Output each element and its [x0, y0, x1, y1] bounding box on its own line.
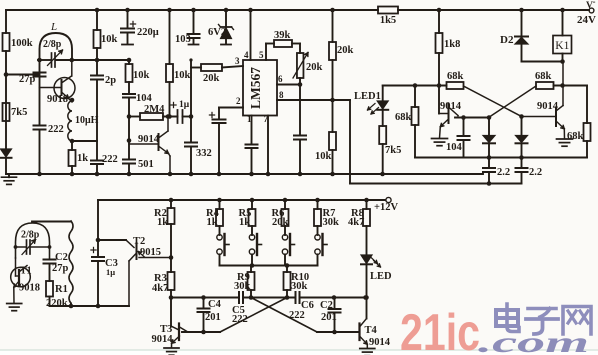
svg-text:T2: T2 — [133, 236, 145, 247]
svg-text:2M4: 2M4 — [144, 104, 165, 115]
svg-text:30k: 30k — [291, 281, 308, 292]
svg-text:2: 2 — [236, 96, 241, 106]
svg-text:201: 201 — [321, 312, 337, 323]
svg-text:D2: D2 — [500, 34, 514, 46]
svg-text:4: 4 — [244, 50, 249, 60]
svg-text:1μ: 1μ — [179, 100, 190, 110]
svg-text:+12V: +12V — [374, 202, 398, 213]
svg-text:30k: 30k — [323, 217, 340, 228]
svg-text:20k: 20k — [337, 45, 354, 56]
svg-text:C4: C4 — [208, 299, 222, 310]
svg-text:27p: 27p — [52, 263, 69, 274]
svg-text:39k: 39k — [274, 30, 291, 41]
svg-text:8: 8 — [279, 90, 284, 100]
svg-text:1: 1 — [247, 114, 252, 124]
svg-text:9014: 9014 — [138, 134, 160, 145]
svg-text:220k: 220k — [46, 298, 68, 309]
svg-text:220μ: 220μ — [137, 27, 159, 38]
svg-text:10k: 10k — [101, 34, 118, 45]
svg-text:LED1: LED1 — [354, 91, 381, 102]
svg-text:LED: LED — [370, 271, 392, 282]
svg-text:9014: 9014 — [440, 101, 462, 112]
svg-text:20k: 20k — [306, 62, 323, 73]
svg-text:.com: .com — [478, 326, 589, 355]
svg-text:27p: 27p — [19, 74, 36, 85]
svg-text:9018: 9018 — [47, 94, 68, 105]
svg-text:21ic: 21ic — [400, 304, 480, 355]
svg-text:4k7: 4k7 — [152, 283, 168, 294]
svg-text:2.2: 2.2 — [497, 167, 510, 178]
svg-text:T4: T4 — [365, 325, 378, 336]
svg-text:10k: 10k — [133, 70, 150, 81]
svg-text:1k: 1k — [77, 153, 88, 164]
svg-text:2/8p: 2/8p — [43, 39, 62, 50]
svg-text:6V2: 6V2 — [208, 27, 226, 38]
svg-text:10k: 10k — [174, 70, 191, 81]
svg-text:LM567: LM567 — [248, 67, 263, 109]
svg-text:2/8p: 2/8p — [21, 230, 40, 241]
svg-text:9015: 9015 — [140, 247, 161, 258]
svg-text:10k: 10k — [315, 151, 332, 162]
svg-text:1k5: 1k5 — [380, 15, 396, 26]
svg-text:10μH: 10μH — [75, 115, 99, 126]
svg-text:1k: 1k — [157, 217, 168, 228]
svg-text:2.2: 2.2 — [529, 167, 542, 178]
svg-text:6: 6 — [278, 74, 283, 84]
svg-text:C2: C2 — [320, 300, 333, 311]
svg-text:2p: 2p — [105, 75, 116, 86]
svg-text:68k: 68k — [447, 71, 464, 82]
svg-text:104: 104 — [446, 142, 463, 153]
svg-text:222: 222 — [102, 154, 118, 165]
svg-text:68k: 68k — [395, 112, 412, 123]
svg-text:501: 501 — [138, 159, 154, 170]
svg-text:332: 332 — [196, 148, 212, 159]
svg-text:20k: 20k — [272, 217, 289, 228]
svg-text:9018: 9018 — [19, 283, 40, 294]
svg-text:30k: 30k — [234, 281, 251, 292]
svg-text:L: L — [50, 21, 57, 33]
svg-text:1k: 1k — [207, 217, 218, 228]
svg-text:1k8: 1k8 — [444, 39, 460, 50]
svg-text:1k: 1k — [239, 217, 250, 228]
svg-text:20k: 20k — [203, 73, 220, 84]
svg-text:9014: 9014 — [152, 334, 174, 345]
svg-text:9014: 9014 — [537, 101, 559, 112]
svg-text:68k: 68k — [535, 71, 552, 82]
svg-text:7k5: 7k5 — [385, 145, 401, 156]
svg-text:T1: T1 — [20, 266, 32, 277]
svg-text:9014: 9014 — [369, 337, 391, 348]
svg-text:1μ: 1μ — [106, 267, 115, 277]
svg-text:24V: 24V — [577, 14, 596, 26]
svg-text:222: 222 — [48, 124, 64, 135]
svg-text:104: 104 — [136, 93, 153, 104]
svg-text:K1: K1 — [555, 40, 569, 52]
svg-text:68k: 68k — [567, 131, 584, 142]
svg-text:C2: C2 — [55, 252, 68, 263]
svg-text:R1: R1 — [55, 284, 68, 295]
svg-text:5: 5 — [259, 50, 264, 60]
svg-text:3: 3 — [235, 56, 240, 66]
svg-text:100k: 100k — [11, 38, 33, 49]
svg-text:4k7: 4k7 — [348, 217, 364, 228]
svg-text:103: 103 — [175, 34, 191, 45]
svg-text:7k5: 7k5 — [11, 107, 27, 118]
svg-text:201: 201 — [205, 312, 221, 323]
svg-text:-: - — [593, 0, 596, 7]
svg-text:7: 7 — [264, 114, 269, 124]
